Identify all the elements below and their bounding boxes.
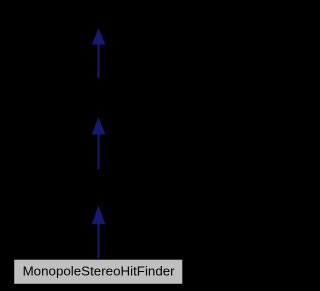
inheritance arrow 2 (middle) — [92, 119, 104, 170]
inheritance arrow 1 (top) — [92, 30, 104, 79]
inheritance arrow 3 (bottom) — [92, 207, 104, 259]
svg-text:MonopoleStereoHitFinder: MonopoleStereoHitFinder — [23, 264, 176, 279]
node box MonopoleStereoHitFinder — [14, 259, 183, 284]
